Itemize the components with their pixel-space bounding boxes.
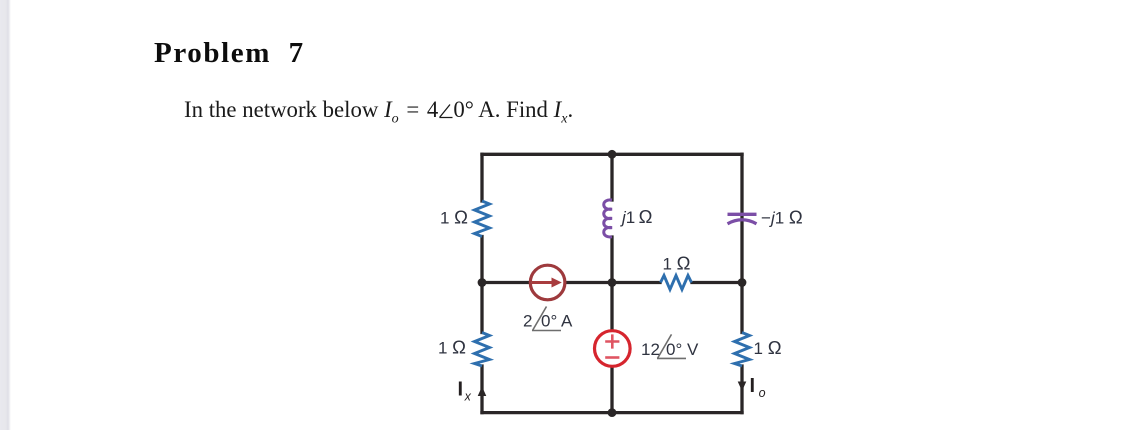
capacitor -j1Ω — [728, 214, 757, 224]
wire left middle segment — [480, 237, 483, 333]
wire right vertical lower — [740, 366, 743, 413]
label Io — [750, 375, 766, 400]
svg-text:0° A: 0° A — [541, 312, 573, 331]
label Ix — [458, 379, 472, 404]
label 1Ω middle horizontal — [662, 253, 690, 274]
svg-text:1 Ω: 1 Ω — [440, 207, 468, 228]
junction dot middle-left — [478, 278, 487, 287]
resistor 1Ω top-left — [475, 201, 490, 237]
wire middle horizontal right part — [692, 281, 742, 284]
wire bottom — [482, 411, 742, 414]
label 2∠0°A with angle symbol — [523, 307, 573, 331]
resistor 1Ω middle horizontal — [661, 276, 692, 290]
label j1Ω — [620, 206, 653, 227]
problem statement — [184, 97, 573, 123]
svg-text:Ix: Ix — [458, 379, 472, 404]
wire left lower segment — [480, 366, 483, 413]
label 12∠0°V with angle symbol — [641, 334, 699, 359]
wire right vertical upper — [740, 154, 743, 332]
svg-text:1 Ω: 1 Ω — [662, 253, 690, 274]
svg-text:1 Ω: 1 Ω — [438, 337, 466, 358]
wire top (node between left, middle, right branches) — [482, 153, 742, 156]
left gray strip — [0, 0, 12, 430]
junction dot top middle — [608, 150, 617, 159]
voltage source 12∠0°V — [595, 331, 631, 367]
wire middle center segment — [610, 237, 613, 413]
label 1Ω bottom-right — [754, 337, 782, 358]
current source 2∠0°A — [530, 265, 565, 300]
svg-text:12: 12 — [641, 340, 660, 359]
junction dot bottom middle — [608, 408, 617, 417]
svg-text:0° V: 0° V — [666, 340, 699, 359]
wire left upper segment — [480, 154, 483, 201]
svg-text:−j1 Ω: −j1 Ω — [761, 207, 803, 228]
arrow Ix (up) — [478, 387, 487, 397]
svg-text:Io: Io — [750, 375, 766, 400]
resistor 1Ω bottom-right — [735, 333, 750, 367]
heading Problem 7 — [154, 37, 305, 70]
svg-text:j1 Ω: j1 Ω — [620, 206, 653, 227]
inductor j1Ω — [604, 200, 612, 237]
label -j1Ω — [761, 207, 803, 228]
junction dot middle-right — [738, 278, 747, 287]
resistor 1Ω bottom-left — [475, 333, 490, 367]
junction dot middle-center — [608, 278, 617, 287]
wire middle horizontal left part — [482, 281, 660, 284]
wire middle upper segment — [610, 154, 613, 200]
arrow Io (down) — [738, 382, 747, 392]
label 1Ω bottom-left — [438, 337, 466, 358]
svg-text:2: 2 — [523, 312, 532, 331]
label 1Ω top-left — [440, 207, 468, 228]
svg-text:1 Ω: 1 Ω — [754, 337, 782, 358]
